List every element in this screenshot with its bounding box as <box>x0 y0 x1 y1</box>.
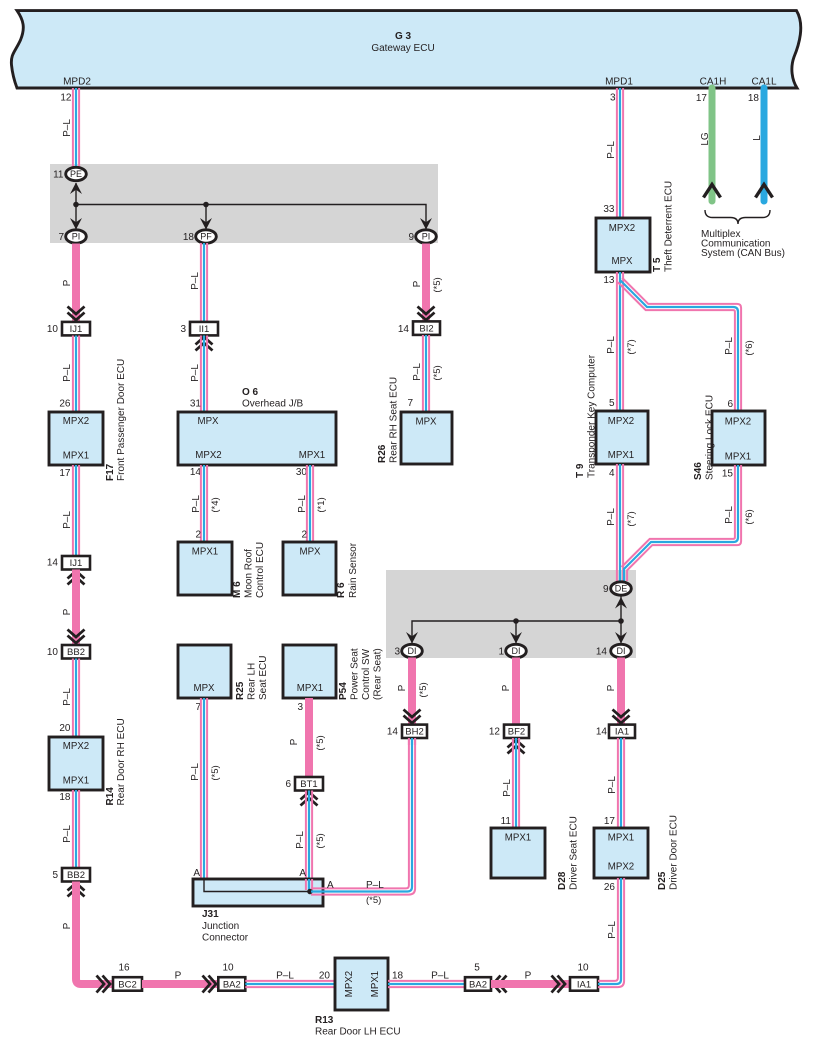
svg-text:PF: PF <box>200 232 212 242</box>
junction dot J31 <box>307 889 313 895</box>
svg-text:2: 2 <box>195 530 201 541</box>
svg-text:2: 2 <box>301 530 307 541</box>
wire P-L BF2 to D28 <box>513 738 519 828</box>
arrow chevron CA1L <box>756 185 773 198</box>
svg-text:P–L: P–L <box>62 511 73 529</box>
connector IA1 pin 14 <box>609 725 635 738</box>
wire P P54 to BT1 <box>305 698 313 776</box>
svg-text:Transponder Key Computer: Transponder Key Computer <box>587 354 598 478</box>
svg-text:PI: PI <box>422 232 431 242</box>
ECU D25 box <box>594 828 648 878</box>
svg-text:13: 13 <box>603 275 615 286</box>
svg-text:PI: PI <box>72 232 81 242</box>
svg-text:P–L: P–L <box>607 776 618 794</box>
svg-text:PE: PE <box>70 169 82 179</box>
svg-text:18: 18 <box>392 971 404 982</box>
wire P BA2b to IA1b <box>491 980 570 988</box>
wire PE to bus line <box>75 183 77 205</box>
svg-text:P–L: P–L <box>606 336 617 354</box>
svg-text:10: 10 <box>222 963 234 974</box>
chevrons into BH2 <box>404 710 421 724</box>
svg-text:15: 15 <box>722 469 734 480</box>
svg-text:Rain Sensor: Rain Sensor <box>348 542 359 598</box>
svg-text:33: 33 <box>603 204 615 215</box>
ECU O6 box <box>178 412 336 465</box>
svg-text:BB2: BB2 <box>67 870 85 881</box>
ECU D28 box <box>491 828 545 878</box>
svg-text:MPX2: MPX2 <box>609 223 635 234</box>
svg-text:6: 6 <box>285 779 291 790</box>
shaded junction band upper <box>50 164 438 243</box>
svg-text:Control ECU: Control ECU <box>255 542 266 598</box>
svg-text:11: 11 <box>53 170 64 181</box>
svg-text:DI: DI <box>512 646 521 656</box>
svg-text:10: 10 <box>577 963 589 974</box>
wire bus to DI-14 <box>620 621 622 644</box>
svg-text:F17: F17 <box>105 463 116 481</box>
arrow into DE <box>615 597 627 609</box>
svg-text:18: 18 <box>748 93 760 104</box>
ECU P54 box <box>283 645 336 698</box>
ECU R14 box <box>49 737 103 790</box>
wire P-L PF to II1 <box>201 243 207 321</box>
svg-text:3: 3 <box>297 702 303 713</box>
svg-text:4: 4 <box>609 468 615 479</box>
svg-text:Moon Roof: Moon Roof <box>244 549 255 598</box>
svg-text:17: 17 <box>696 93 708 104</box>
wire P DI-3 to BH2 <box>408 658 416 725</box>
svg-text:T 5: T 5 <box>652 257 663 272</box>
svg-text:MPX1: MPX1 <box>297 683 323 694</box>
svg-text:14: 14 <box>387 727 399 738</box>
connector oval PE <box>66 167 87 180</box>
junction dot A <box>73 202 79 208</box>
svg-text:Front Passenger Door ECU: Front Passenger Door ECU <box>116 359 127 481</box>
svg-text:26: 26 <box>59 399 71 410</box>
svg-text:3: 3 <box>180 324 186 335</box>
svg-text:7: 7 <box>407 398 413 409</box>
arrow into PI-9 <box>420 218 432 230</box>
svg-text:Rear RH Seat ECU: Rear RH Seat ECU <box>389 377 400 463</box>
connector IJ1 pin 14 <box>62 556 90 570</box>
junction dot C <box>513 618 519 624</box>
wire P-L D25 to IA1b <box>598 878 624 987</box>
svg-text:18: 18 <box>59 792 71 803</box>
ECU S46 box <box>712 411 765 465</box>
wire P-L IA1 to D25 <box>618 738 624 828</box>
connector II1 pin 3 <box>190 322 218 336</box>
svg-text:S46: S46 <box>693 462 704 480</box>
svg-text:14: 14 <box>398 324 410 335</box>
bus line upper band <box>76 205 426 231</box>
svg-text:MPX1: MPX1 <box>192 547 218 558</box>
svg-text:(*6): (*6) <box>744 340 755 355</box>
connector oval DI pin 3 <box>402 644 423 657</box>
connector oval DI pin 1 <box>506 644 527 657</box>
connector IJ1 pin 10 <box>62 322 90 336</box>
chevrons out of BA2b <box>493 976 507 993</box>
wire P DI-14 to IA1 <box>617 658 625 725</box>
wire P-L BI2 to R26 <box>423 335 429 412</box>
wire bus to PI-7 <box>75 205 77 231</box>
svg-text:30: 30 <box>296 467 308 478</box>
svg-text:MPX2: MPX2 <box>63 741 89 752</box>
wire P-L MPD2 to PE <box>73 88 79 168</box>
svg-text:IA1: IA1 <box>615 727 629 738</box>
connector oval PI pin 7 <box>66 230 87 243</box>
wire P IJ1b to BB2a <box>72 570 80 646</box>
chevrons out of BF2 <box>508 740 525 754</box>
svg-text:P: P <box>62 922 73 929</box>
svg-text:P–L: P–L <box>295 831 306 849</box>
svg-text:3: 3 <box>610 93 616 104</box>
svg-text:BC2: BC2 <box>118 979 136 990</box>
svg-text:P–L: P–L <box>62 364 73 382</box>
svg-text:P–L: P–L <box>607 921 618 939</box>
svg-text:LG: LG <box>700 132 711 146</box>
svg-text:(*5): (*5) <box>432 277 443 292</box>
shaded junction band lower <box>386 570 636 658</box>
svg-text:R25: R25 <box>235 681 246 700</box>
svg-text:MPX2: MPX2 <box>195 450 221 461</box>
svg-text:BI2: BI2 <box>419 324 433 335</box>
svg-text:P: P <box>62 608 73 615</box>
chevrons into IA1 <box>613 710 630 724</box>
ECU F17 box <box>49 412 103 465</box>
svg-text:P–L: P–L <box>431 971 449 982</box>
ECU J31 box <box>193 879 323 906</box>
svg-text:IA1: IA1 <box>577 979 591 990</box>
wire P-L O6 to M6 <box>201 465 207 542</box>
svg-text:T 9: T 9 <box>575 463 586 478</box>
svg-text:BT1: BT1 <box>300 779 317 790</box>
wire P-L T9 to DE <box>617 464 623 582</box>
svg-text:P54: P54 <box>338 682 349 700</box>
svg-text:IJ1: IJ1 <box>70 324 83 335</box>
svg-text:Control SW: Control SW <box>361 648 372 700</box>
svg-text:P–L: P–L <box>62 825 73 843</box>
svg-text:(*1): (*1) <box>316 497 327 512</box>
svg-text:20: 20 <box>319 971 331 982</box>
connector BB2 pin 5 <box>62 868 90 882</box>
svg-text:P–L: P–L <box>412 363 423 381</box>
svg-text:P–L: P–L <box>366 880 384 891</box>
svg-text:A: A <box>299 868 306 879</box>
svg-text:5: 5 <box>609 398 615 409</box>
svg-text:P–L: P–L <box>502 779 513 797</box>
wire L CA1L <box>761 88 768 201</box>
wire P-L R13 to BA2b <box>388 981 465 987</box>
ECU R26 box <box>401 412 452 464</box>
arrow into DI-3 <box>406 632 418 644</box>
svg-text:II1: II1 <box>199 324 210 335</box>
svg-text:Theft Deterrent ECU: Theft Deterrent ECU <box>664 181 675 272</box>
wire bus to DI-1 <box>515 621 517 644</box>
svg-text:P–L: P–L <box>606 508 617 526</box>
svg-text:17: 17 <box>604 816 616 827</box>
junction dot B <box>203 202 209 208</box>
svg-text:MPX: MPX <box>416 417 438 428</box>
svg-text:(*5): (*5) <box>366 895 381 906</box>
svg-text:16: 16 <box>118 963 130 974</box>
svg-text:BA2: BA2 <box>469 979 487 990</box>
svg-text:Driver Door ECU: Driver Door ECU <box>669 815 680 890</box>
svg-text:MPD2: MPD2 <box>63 77 91 88</box>
svg-text:DE: DE <box>615 584 628 594</box>
arrow into DI-14 <box>615 632 627 644</box>
svg-text:Connector: Connector <box>202 933 249 944</box>
svg-text:Rear LH: Rear LH <box>247 663 258 700</box>
svg-text:MPX1: MPX1 <box>370 971 381 997</box>
svg-text:MPD1: MPD1 <box>605 77 633 88</box>
wire P-L S46 return to DE <box>622 465 742 581</box>
svg-text:J31: J31 <box>202 909 219 920</box>
svg-text:P–L: P–L <box>276 971 294 982</box>
svg-text:(*5): (*5) <box>418 682 429 697</box>
wire P-L R25 to J31 <box>201 698 207 879</box>
wire P-L branch T5 to S46 <box>618 278 741 411</box>
svg-text:R26: R26 <box>377 444 388 463</box>
svg-text:P–L: P–L <box>190 364 201 382</box>
connector BF2 pin 12 <box>504 725 529 738</box>
wire bus to PF <box>205 205 207 231</box>
svg-text:(*5): (*5) <box>432 365 443 380</box>
ECU R13 box <box>335 958 388 1010</box>
svg-text:5: 5 <box>52 870 58 881</box>
svg-text:P–L: P–L <box>190 763 201 781</box>
svg-text:MPX1: MPX1 <box>63 776 89 787</box>
svg-text:P–L: P–L <box>191 495 202 513</box>
wire P-L O6 to R6 <box>307 465 313 542</box>
svg-text:MPX2: MPX2 <box>725 417 751 428</box>
svg-text:14: 14 <box>47 558 59 569</box>
bus line lower band <box>412 621 621 644</box>
svg-text:9: 9 <box>603 584 609 595</box>
svg-text:R13: R13 <box>315 1015 334 1026</box>
svg-text:20: 20 <box>59 723 71 734</box>
svg-text:31: 31 <box>190 399 202 410</box>
wire P-L F17 to IJ1b <box>73 465 79 556</box>
svg-text:14: 14 <box>190 467 202 478</box>
svg-text:MPX1: MPX1 <box>63 451 89 462</box>
svg-text:P–L: P–L <box>724 506 735 524</box>
svg-text:P–L: P–L <box>724 337 735 355</box>
svg-text:MPX2: MPX2 <box>608 416 634 427</box>
svg-text:(*7): (*7) <box>626 511 637 526</box>
svg-text:P–L: P–L <box>62 688 73 706</box>
wire P-L T5 to T9 <box>617 272 623 411</box>
ECU M6 box <box>178 542 232 595</box>
svg-text:Rear Door RH ECU: Rear Door RH ECU <box>116 718 127 805</box>
svg-text:6: 6 <box>727 399 733 410</box>
wire LG CA1H <box>709 88 716 201</box>
wire P BC2 to BA2a <box>142 980 217 988</box>
svg-text:Steering Lock ECU: Steering Lock ECU <box>705 395 716 480</box>
chevrons into IA1b <box>552 976 566 993</box>
svg-text:(*6): (*6) <box>744 509 755 524</box>
svg-text:Junction: Junction <box>202 921 239 932</box>
ECU R6 box <box>283 542 336 595</box>
chevrons into BC2 <box>97 976 111 993</box>
connector oval DE pin 9 <box>611 582 632 595</box>
svg-text:17: 17 <box>59 468 71 479</box>
svg-text:14: 14 <box>596 727 608 738</box>
svg-text:26: 26 <box>604 882 616 893</box>
svg-text:P: P <box>62 279 73 286</box>
connector BA2 pin 5 <box>465 977 491 991</box>
svg-text:MPX1: MPX1 <box>299 450 325 461</box>
wire P-L J31 to BH2 riser <box>311 738 415 895</box>
svg-text:IJ1: IJ1 <box>70 558 83 569</box>
chevrons out of IJ1b <box>68 571 85 585</box>
svg-text:O 6: O 6 <box>242 387 259 398</box>
brace CAN bus <box>705 210 770 224</box>
svg-text:18: 18 <box>183 232 195 243</box>
svg-text:System (CAN Bus): System (CAN Bus) <box>701 248 785 259</box>
arrow into PE <box>70 183 82 195</box>
svg-text:G 3: G 3 <box>395 31 412 42</box>
svg-text:A: A <box>193 868 200 879</box>
svg-text:MPX2: MPX2 <box>63 416 89 427</box>
wire P-L II1 to O6 <box>201 336 207 413</box>
connector BH2 pin 14 <box>402 725 427 738</box>
svg-text:R14: R14 <box>105 787 116 806</box>
svg-text:BA2: BA2 <box>223 979 241 990</box>
svg-text:(*7): (*7) <box>626 339 637 354</box>
svg-text:A: A <box>327 880 334 891</box>
svg-text:MPX: MPX <box>194 683 216 694</box>
svg-text:MPX1: MPX1 <box>505 833 531 844</box>
svg-text:MPX2: MPX2 <box>608 861 634 872</box>
chevrons into BI2 <box>418 307 435 321</box>
ECU G3 Gateway ECU bus bar <box>11 11 800 88</box>
arrow into PF <box>200 218 212 230</box>
connector BB2 pin 10 <box>62 645 90 659</box>
svg-text:1: 1 <box>498 647 504 658</box>
junction dot D <box>618 618 624 624</box>
ECU R25 box <box>178 645 231 698</box>
svg-text:3: 3 <box>394 647 400 658</box>
wire P-L IJ1 to F17 <box>73 336 79 413</box>
connector oval DI pin 14 <box>611 644 632 657</box>
svg-text:L: L <box>752 135 763 141</box>
svg-text:MPX1: MPX1 <box>608 450 634 461</box>
arrow chevron CA1H <box>704 185 721 198</box>
svg-text:9: 9 <box>408 232 414 243</box>
wire P-L R14 to BB2b <box>73 790 79 868</box>
svg-text:10: 10 <box>47 324 59 335</box>
svg-text:BH2: BH2 <box>405 727 423 738</box>
chevrons into BB2a <box>68 630 85 644</box>
wire P-L BT1 to J31 <box>306 791 312 880</box>
wire DE to bus line <box>620 597 622 622</box>
svg-text:(*5): (*5) <box>210 765 221 780</box>
svg-text:(*5): (*5) <box>315 735 326 750</box>
svg-text:MPX: MPX <box>198 416 220 427</box>
J31 internal bus <box>204 879 310 892</box>
svg-text:5: 5 <box>474 963 480 974</box>
svg-text:BF2: BF2 <box>508 727 525 738</box>
chevrons out of BB2b <box>68 883 85 897</box>
arrow into DI-1 <box>510 632 522 644</box>
wire P PI-9 to BI2 <box>422 244 430 321</box>
connector IA1 pin 10 <box>570 977 598 991</box>
chevrons into BA2a <box>203 976 217 993</box>
svg-text:P: P <box>175 971 182 982</box>
svg-text:R 6: R 6 <box>336 582 347 598</box>
connector BC2 pin 16 <box>113 977 142 991</box>
svg-text:MPX1: MPX1 <box>608 833 634 844</box>
wire P-L BA2a to R13 <box>245 981 335 987</box>
svg-text:Rear Door LH ECU: Rear Door LH ECU <box>315 1027 401 1038</box>
svg-text:P: P <box>501 684 512 691</box>
chevrons out of BT1 <box>301 792 318 806</box>
svg-text:P: P <box>289 738 300 745</box>
connector oval PF pin 18 <box>196 230 217 243</box>
svg-text:MPX: MPX <box>300 547 322 558</box>
connector oval PI pin 9 <box>416 230 437 243</box>
svg-text:P: P <box>606 684 617 691</box>
chevrons out of II1 <box>196 337 213 351</box>
wire P-L BB2a to R14 <box>73 659 79 738</box>
svg-text:MPX1: MPX1 <box>725 452 751 463</box>
svg-text:Seat ECU: Seat ECU <box>258 656 269 700</box>
wire P-L BH2 down (joins J31 riser) <box>409 738 415 745</box>
arrow into PI-7 <box>70 218 82 230</box>
svg-text:(*5): (*5) <box>315 833 326 848</box>
svg-text:P: P <box>525 971 532 982</box>
svg-text:BB2: BB2 <box>67 647 85 658</box>
svg-text:12: 12 <box>60 93 72 104</box>
svg-text:P–L: P–L <box>62 119 73 137</box>
svg-text:P: P <box>412 280 423 287</box>
svg-text:14: 14 <box>596 647 608 658</box>
svg-text:(*4): (*4) <box>210 497 221 512</box>
connector BT1 pin 6 <box>295 777 323 791</box>
svg-text:MPX2: MPX2 <box>344 971 355 997</box>
ECU T5 box <box>596 218 650 272</box>
svg-text:MPX: MPX <box>612 256 634 267</box>
svg-text:DI: DI <box>408 646 417 656</box>
svg-text:P: P <box>397 684 408 691</box>
wire P DI-1 to BF2 <box>512 658 520 725</box>
wire P-L into J31 from BT1 <box>306 879 312 890</box>
svg-text:10: 10 <box>47 647 59 658</box>
connector BA2 pin 10 <box>218 977 245 991</box>
svg-text:Power Seat: Power Seat <box>350 648 361 700</box>
wire P-L MPD1 to T5 <box>617 88 623 218</box>
svg-text:M 6: M 6 <box>232 581 243 598</box>
svg-text:D28: D28 <box>557 871 568 890</box>
svg-text:D25: D25 <box>657 871 668 890</box>
svg-text:DI: DI <box>617 646 626 656</box>
ECU T9 box <box>596 411 648 464</box>
svg-text:11: 11 <box>501 816 512 827</box>
svg-text:Overhead J/B: Overhead J/B <box>242 399 303 410</box>
svg-text:12: 12 <box>489 727 501 738</box>
svg-text:7: 7 <box>58 232 64 243</box>
svg-text:P–L: P–L <box>606 141 617 159</box>
chevrons into IJ1 <box>68 307 85 321</box>
svg-text:P–L: P–L <box>297 495 308 513</box>
svg-text:Driver Seat ECU: Driver Seat ECU <box>569 816 580 890</box>
svg-text:P–L: P–L <box>190 272 201 290</box>
connector BI2 pin 14 <box>413 321 440 335</box>
svg-text:Gateway ECU: Gateway ECU <box>371 43 434 54</box>
wire P BB2b corner to BC2 <box>76 882 112 985</box>
wire P PI-7 to IJ1 <box>72 244 80 322</box>
svg-text:(Rear Seat): (Rear Seat) <box>373 648 384 700</box>
